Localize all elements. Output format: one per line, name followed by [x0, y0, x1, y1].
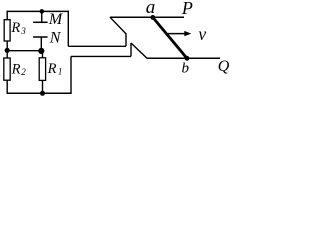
wire: R1 top stub: [42, 51, 44, 58]
svg-text:R: R: [10, 20, 20, 36]
svg-text:2: 2: [21, 67, 26, 77]
wire: capacitor top stem: [41, 11, 43, 22]
node: junction dot capacitor top: [40, 9, 45, 14]
resistor R2: [4, 58, 10, 80]
resistor R3: [4, 20, 10, 41]
wire: bottom diagonal to rail Q: [131, 43, 147, 58]
svg-text:R: R: [11, 62, 21, 78]
svg-text:M: M: [48, 11, 64, 28]
wire: R1 bottom stub: [42, 80, 44, 93]
wire: circuit bottom side: [7, 92, 72, 94]
capacitor plate M (top): [33, 21, 48, 23]
wire: bottom connecting horizontal: [71, 55, 131, 57]
wire: capacitor bottom stem: [40, 37, 42, 51]
wire: circuit top side: [7, 10, 70, 12]
wire: bottom right vertical of circuit: [70, 56, 72, 93]
node a (dot on rail P): [150, 15, 155, 20]
wire: circuit left side top (to R3): [6, 11, 8, 20]
wire: circuit right vertical (top feed): [67, 11, 69, 47]
svg-text:1: 1: [58, 67, 63, 77]
rail Q (bottom rail): [147, 57, 220, 59]
wire: top connecting horizontal: [68, 45, 126, 47]
wire: R3 bottom stub: [6, 41, 8, 50]
rail P (top rail): [110, 16, 184, 18]
capacitor plate N (bottom): [33, 36, 48, 38]
wire: top jog vertical: [125, 34, 127, 47]
sliding bar ab: [153, 17, 187, 58]
resistor R1: [39, 58, 45, 81]
svg-text:N: N: [49, 30, 62, 47]
node b (dot on rail Q): [185, 56, 190, 61]
svg-text:R: R: [47, 61, 57, 77]
svg-text:3: 3: [20, 26, 26, 36]
node: junction dot middle (cap/R1 junction): [38, 48, 44, 54]
svg-text:v: v: [198, 24, 206, 44]
svg-text:P: P: [181, 0, 193, 18]
velocity arrow v: [167, 33, 186, 35]
wire: bottom jog vertical: [130, 43, 132, 56]
wire: R2 top stub: [6, 50, 8, 58]
svg-text:b: b: [182, 60, 190, 76]
wire: top diagonal to rail P: [110, 17, 126, 34]
svg-text:a: a: [146, 0, 156, 18]
node: junction dot left (R3/R2 junction): [5, 48, 10, 53]
svg-text:Q: Q: [218, 58, 230, 75]
wire: R2 bottom stub: [6, 80, 8, 94]
node: junction dot bottom (R1/bottom wire): [40, 91, 45, 96]
wire: middle horizontal between junctions: [7, 50, 41, 52]
